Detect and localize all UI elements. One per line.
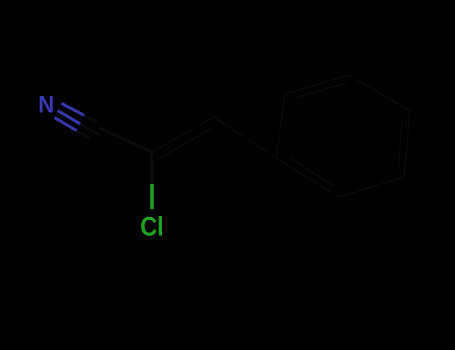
ring inner double bond D-E — [398, 121, 402, 170]
single bond C1-C2 — [99, 128, 152, 152]
C2=C3 double bond (dark carbon) — [152, 117, 276, 159]
ring inner double bond F-A — [290, 158, 334, 186]
nitrile triple bond N#C1 : blue half (N side), three parallel lines — [55, 103, 85, 130]
svg-text:N: N — [38, 91, 54, 118]
triple bond line upper — [61, 103, 84, 115]
ring outline — [276, 75, 410, 197]
ring inner double bond B-C — [295, 83, 346, 98]
svg-text:Cl: Cl — [140, 212, 164, 242]
C2-Cl bond: carbon-side dark half — [150, 152, 153, 184]
triple bond line middle — [58, 111, 81, 124]
triple bond line lower — [55, 118, 77, 131]
C2-Cl bond: green chlorine half — [150, 184, 153, 209]
nitrile triple bond carbon-side dark half — [77, 115, 152, 152]
benzene ring (dark carbon) — [276, 75, 410, 197]
C3 - ring single bond — [214, 117, 276, 158]
